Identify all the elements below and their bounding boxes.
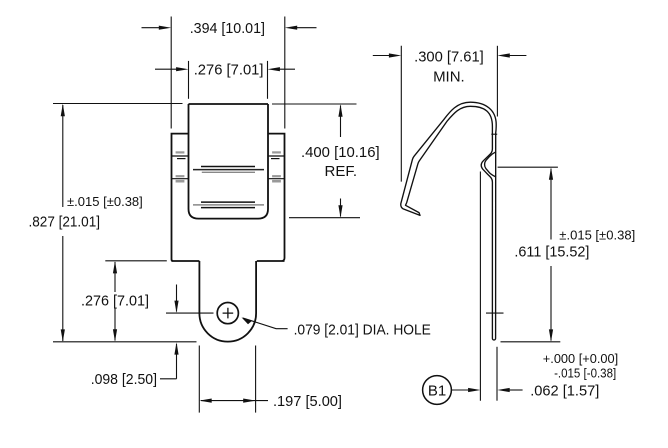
svg-text:.276 [7.01]: .276 [7.01] <box>194 62 264 79</box>
arrowhead dim .394 right <box>285 26 297 30</box>
dim .611 dimension line upper segment <box>550 169 552 240</box>
spring arm outline (hook + strip), single closed path <box>401 102 496 340</box>
svg-text:.827 [21.01]: .827 [21.01] <box>29 213 101 230</box>
dim .276 top extension line left <box>188 61 190 99</box>
part outer body outline <box>172 134 285 261</box>
dim .276 bottom dimension line upper segment <box>114 262 116 292</box>
arrowhead dim .098 down to hole centerline <box>174 301 178 313</box>
dim .197 dimension line <box>201 400 268 402</box>
dim .394 extension line left <box>170 17 172 129</box>
hole centerline tick on strip <box>486 312 504 314</box>
svg-text:B1: B1 <box>428 382 446 399</box>
dim .197 extension line left <box>198 346 200 413</box>
left strip bump marks <box>172 152 189 181</box>
dim .098 leader to label <box>160 378 177 380</box>
dim .276 top arrow tail left <box>155 68 179 70</box>
dim .400 dimension line lower segment <box>340 199 342 217</box>
arrowhead dim .400 up <box>338 104 342 116</box>
svg-text:+.000 [+0.00]: +.000 [+0.00] <box>543 351 618 366</box>
arrowhead dim .098 up to baseline <box>174 342 178 354</box>
dim .062 right extension line <box>496 347 498 401</box>
spring contact lines group 1 <box>193 167 264 173</box>
svg-text:.276 [7.01]: .276 [7.01] <box>81 293 149 310</box>
dim .098 upper arrow line <box>176 285 178 312</box>
dim .611 top extension line <box>498 166 558 168</box>
arrowhead dim .611 up <box>549 167 553 179</box>
svg-text:.079 [2.01] DIA. HOLE: .079 [2.01] DIA. HOLE <box>294 322 431 339</box>
dim .827 top extension line <box>53 103 183 105</box>
arrowhead dim .197 left <box>199 399 211 403</box>
dim .300 arrow tail right <box>507 55 527 57</box>
arrowhead dim .394 left <box>159 26 171 30</box>
dim .197 extension line right <box>255 346 257 413</box>
dim .300 extension line right <box>496 46 498 117</box>
arrowhead leader .079 hole <box>242 317 253 324</box>
dim .098 lower arrow line <box>176 344 178 379</box>
svg-text:.400 [10.16]: .400 [10.16] <box>301 144 380 161</box>
hole centerline left <box>166 312 214 314</box>
arrowhead dim .276 top left <box>176 67 188 71</box>
dim .276 bottom extension line <box>105 260 167 262</box>
arrowhead dim .827 down <box>61 329 65 341</box>
svg-text:.197 [5.00]: .197 [5.00] <box>273 393 342 410</box>
dim .827 dimension line upper segment <box>62 105 64 207</box>
spring contact lines group 2 <box>193 202 264 208</box>
dim .276 top arrow tail right <box>277 68 295 70</box>
part bottom tab with semicircular end <box>199 261 256 342</box>
svg-text:.062 [1.57]: .062 [1.57] <box>530 383 599 400</box>
dim .276 bottom dimension line lower segment <box>114 308 116 341</box>
dim .394 arrow tail right <box>294 27 317 29</box>
dim .394 extension line right <box>284 17 286 129</box>
svg-text:.300 [7.61]: .300 [7.61] <box>414 49 484 66</box>
arrowhead B1 leader / dim .062 left <box>468 388 480 392</box>
dim .300 extension line left <box>400 46 402 182</box>
baseline extension <box>53 341 197 343</box>
arrowhead dim .197 right <box>243 399 255 403</box>
dim .062 right arrow line <box>507 389 523 391</box>
svg-text:.098 [2.50]: .098 [2.50] <box>91 371 157 388</box>
arrowhead dim .400 down <box>338 205 342 217</box>
dim .394 arrow tail left <box>142 27 163 29</box>
dim .611 bottom extension line <box>501 341 561 343</box>
svg-text:.394 [10.01]: .394 [10.01] <box>190 20 265 37</box>
dim .062 left extension line (from bump) <box>479 172 481 401</box>
svg-text:REF.: REF. <box>325 163 358 180</box>
arrowhead dim .611 down <box>549 329 553 341</box>
arrowhead dim .300 left <box>389 53 401 57</box>
arrowhead dim .300 right <box>497 53 509 57</box>
dim .611 dimension line lower segment <box>550 266 552 341</box>
dim .276 top extension line right <box>267 61 269 99</box>
dim .827 dimension line lower segment <box>62 236 64 341</box>
leader .079 dia hole <box>243 318 288 329</box>
arrowhead dim .276 bottom up <box>113 261 117 273</box>
part upper tab + spring U outline <box>189 104 269 219</box>
right strip bump marks <box>268 152 285 181</box>
dim .300 arrow tail left <box>373 55 392 57</box>
dim .400 dimension line upper segment <box>340 106 342 138</box>
junction tick top of strip <box>491 133 497 135</box>
dim .400 extension line top <box>272 103 357 105</box>
arrowhead dim .276 bottom down <box>113 329 117 341</box>
arrowhead dim .827 up <box>61 104 65 116</box>
hole center cross <box>223 308 234 319</box>
svg-text:±.015 [±0.38]: ±.015 [±0.38] <box>559 228 635 243</box>
dim .400 extension line bottom <box>289 217 360 219</box>
hole circle <box>217 303 238 324</box>
balloon circle B1 <box>423 376 452 405</box>
svg-text:±.015 [±0.38]: ±.015 [±0.38] <box>67 194 143 209</box>
svg-text:MIN.: MIN. <box>433 69 465 86</box>
svg-text:.611 [15.52]: .611 [15.52] <box>514 244 589 261</box>
arrowhead dim .062 right <box>497 388 509 392</box>
B1 leader line <box>451 389 470 391</box>
bump inner surface line (side view detent) <box>485 152 496 177</box>
arrowhead dim .276 top right <box>268 67 280 71</box>
svg-text:-.015 [-0.38]: -.015 [-0.38] <box>554 365 616 380</box>
